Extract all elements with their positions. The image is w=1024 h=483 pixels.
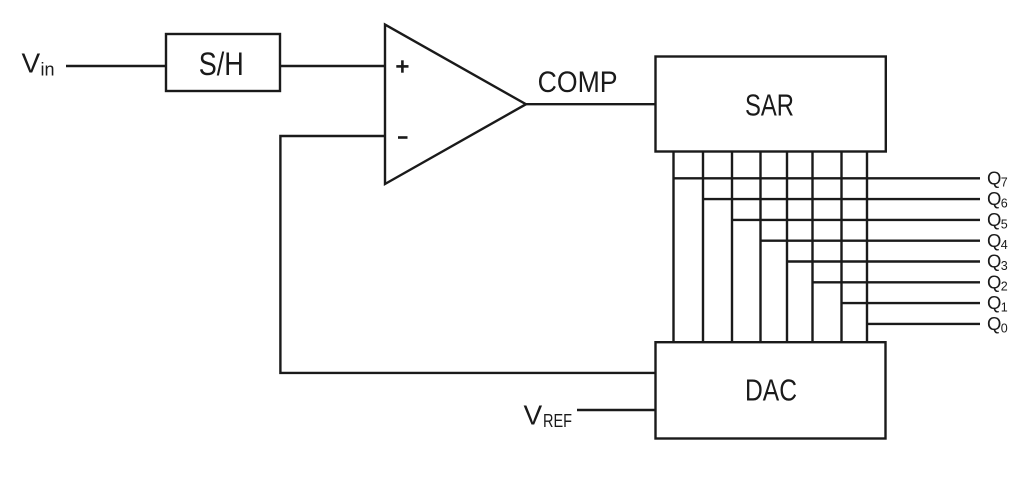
wire output Q4 (761, 239, 981, 241)
svg-text:6: 6 (1001, 197, 1008, 211)
svg-text:Q: Q (987, 292, 1001, 313)
svg-text:7: 7 (1001, 176, 1008, 190)
wire output Q7 (674, 177, 981, 179)
svg-text:S/H: S/H (199, 46, 244, 82)
svg-text:Q: Q (987, 209, 1001, 230)
node Q0 label (987, 313, 1008, 335)
svg-text:2: 2 (1001, 280, 1008, 294)
svg-text:Q: Q (987, 271, 1001, 292)
wire output Q0 (867, 323, 980, 325)
node Vin label (22, 47, 55, 79)
svg-text:V: V (524, 399, 543, 430)
svg-text:REF: REF (543, 410, 572, 431)
svg-text:in: in (41, 60, 55, 80)
wire output Q6 (703, 198, 980, 200)
node VREF label (524, 399, 573, 431)
block DAC (656, 342, 886, 438)
svg-text:DAC: DAC (745, 374, 797, 408)
wire output Q5 (732, 219, 980, 221)
svg-text:4: 4 (1001, 238, 1008, 252)
wire comparator output to SAR, node COMP (526, 103, 657, 105)
node Q1 label (987, 292, 1008, 314)
block S/H (166, 34, 280, 91)
svg-text:Q: Q (987, 188, 1001, 209)
wire output Q1 (842, 302, 981, 304)
op-amp comparator U1 (385, 25, 526, 184)
wire SAR bit5 vertical (731, 151, 733, 343)
node Q4 label (987, 230, 1008, 252)
node Q5 label (987, 209, 1008, 231)
wire SAR bit3 vertical (786, 151, 788, 343)
svg-text:5: 5 (1001, 217, 1008, 231)
wire SAR bit7 vertical (672, 151, 674, 343)
wire SAR bit0 vertical (866, 151, 868, 343)
svg-text:Q: Q (987, 251, 1001, 272)
svg-text:1: 1 (1001, 301, 1008, 315)
wire SAR bit2 vertical (811, 151, 813, 343)
wire S/H to comparator plus input (280, 65, 386, 67)
svg-text:SAR: SAR (745, 88, 794, 122)
block SAR (656, 57, 886, 152)
wire output Q3 (787, 260, 980, 262)
pin minus (398, 136, 408, 139)
svg-text:Q: Q (987, 167, 1001, 188)
wire SAR bit6 vertical (702, 151, 704, 343)
svg-text:0: 0 (1001, 321, 1008, 335)
wire output Q2 (813, 281, 981, 283)
wire SAR bit1 vertical (840, 151, 842, 343)
svg-text:V: V (22, 47, 41, 78)
wire DAC feedback to comparator minus input (280, 136, 656, 373)
node Q6 label (987, 188, 1008, 210)
wire SAR bit4 vertical (759, 151, 761, 343)
svg-text:Q: Q (987, 230, 1001, 251)
node Q2 label (987, 271, 1008, 293)
svg-text:Q: Q (987, 313, 1001, 334)
svg-text:COMP: COMP (538, 66, 618, 99)
svg-text:3: 3 (1001, 259, 1008, 273)
wire VREF to DAC (577, 409, 656, 411)
wire Vin to S/H (66, 65, 166, 67)
node Q7 label (987, 167, 1008, 189)
node Q3 label (987, 251, 1008, 273)
pin plus (396, 60, 408, 72)
